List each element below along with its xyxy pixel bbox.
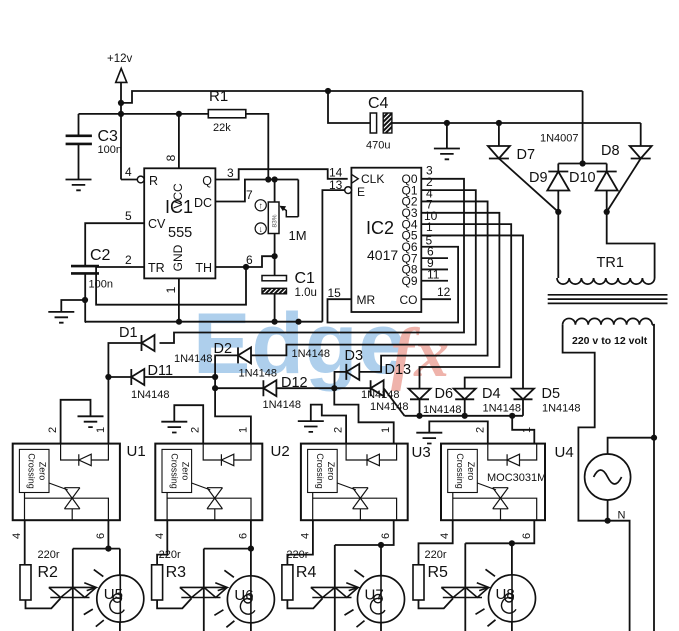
U1 internal bottom wires xyxy=(24,493,26,521)
svg-text:CV: CV xyxy=(148,217,166,231)
wire D9 top stub xyxy=(557,164,559,172)
node U4 pin6 xyxy=(509,540,515,546)
svg-text:GND: GND xyxy=(171,244,185,271)
wire IC1 VCC pin 8 xyxy=(178,114,180,168)
lamp U8 rays xyxy=(476,569,496,626)
svg-text:D5: D5 xyxy=(542,386,561,402)
node DC/R1 junction xyxy=(265,176,271,182)
pot wiper arrow and loop xyxy=(281,207,299,217)
svg-text:Q: Q xyxy=(202,174,212,188)
triac Q4 symbol xyxy=(441,587,488,597)
diode D9 1N4007 xyxy=(547,172,569,191)
svg-text:D1: D1 xyxy=(119,325,138,341)
wire secondary right rail xyxy=(652,325,654,631)
triac Q4 arrow to lamp xyxy=(477,583,489,591)
U2 internal LED xyxy=(221,454,233,466)
svg-text:Zero: Zero xyxy=(180,462,190,481)
wire U2 pin4 to R3 xyxy=(157,520,167,565)
wire U3 pin2 to ground xyxy=(311,405,346,444)
wire C3 top xyxy=(78,114,80,136)
svg-text:TR1: TR1 xyxy=(597,255,624,271)
resistor R5 220r xyxy=(413,565,424,600)
svg-text:1N4148: 1N4148 xyxy=(370,401,409,413)
svg-text:15: 15 xyxy=(328,286,342,300)
triac Q3 symbol xyxy=(311,587,358,597)
U1 internal LED xyxy=(79,454,91,466)
svg-text:1N4148: 1N4148 xyxy=(423,404,462,416)
lamp U7 xyxy=(358,576,405,623)
wire R3 to triac gate xyxy=(157,598,191,608)
node DC/pot junction xyxy=(272,176,278,182)
svg-text:C1: C1 xyxy=(295,270,316,287)
svg-text:U4: U4 xyxy=(555,444,574,461)
node U1 net D11 junction xyxy=(105,374,111,380)
wire D4 to rail xyxy=(464,399,466,416)
wire U2 pin2 to ground xyxy=(174,405,203,443)
svg-text:100n: 100n xyxy=(89,279,113,291)
wire R4 to triac gate xyxy=(287,598,322,608)
svg-text:CLK: CLK xyxy=(361,172,384,186)
svg-text:7: 7 xyxy=(246,188,253,202)
U4 internal LED xyxy=(507,454,519,466)
wire IC1 Q output to IC2 CLK xyxy=(215,169,347,179)
wire lamp1 drop xyxy=(119,549,121,631)
node D9 output xyxy=(555,209,561,215)
node U2 net D11 junction xyxy=(212,374,218,380)
IC2 clock edge marker xyxy=(351,174,358,183)
ground at U2 pin2 xyxy=(161,422,187,433)
wire R5 to triac gate xyxy=(419,598,454,608)
svg-text:U3: U3 xyxy=(412,444,431,461)
svg-text:+12v: +12v xyxy=(107,53,133,65)
svg-text:13: 13 xyxy=(329,178,343,192)
wire triac3 drop xyxy=(334,545,336,631)
diode D10 1N4007 xyxy=(596,172,618,191)
wire C4 right rail xyxy=(392,122,641,124)
svg-text:1: 1 xyxy=(380,427,392,433)
svg-text:R: R xyxy=(149,174,158,188)
wire U3 net to pin1 xyxy=(334,388,393,443)
U3 gate wire xyxy=(337,483,356,490)
svg-text:D6: D6 xyxy=(435,386,454,402)
diode D6 1N4148 xyxy=(409,389,431,400)
wire TR1 primary right lead xyxy=(607,212,655,278)
wire top rail to bridge xyxy=(121,91,583,103)
node rail mid xyxy=(295,319,301,325)
node U3 pin6 xyxy=(378,542,384,548)
node rail D6 xyxy=(416,413,422,419)
stub Q7 pin 6 xyxy=(421,257,448,259)
node C2 ground junction xyxy=(82,297,88,303)
svg-text:D7: D7 xyxy=(517,147,536,163)
U1 internal LED wires xyxy=(61,444,79,460)
svg-text:2: 2 xyxy=(474,427,486,433)
U4 zero crossing block xyxy=(448,449,478,492)
opto-triac U3 body xyxy=(301,444,408,521)
U2 zero crossing block xyxy=(162,449,192,492)
svg-text:470u: 470u xyxy=(366,140,390,152)
svg-text:4: 4 xyxy=(11,533,23,539)
svg-text:1N4148: 1N4148 xyxy=(174,353,213,365)
svg-text:↓: ↓ xyxy=(259,224,263,234)
svg-text:1.0u: 1.0u xyxy=(295,287,317,299)
svg-text:R3: R3 xyxy=(166,564,187,581)
resistor R3 220r xyxy=(152,565,163,600)
svg-text:220r: 220r xyxy=(159,549,181,561)
transformer TR1 core xyxy=(548,295,668,304)
wire Q2 bus xyxy=(359,201,488,371)
svg-text:1N4148: 1N4148 xyxy=(131,389,170,401)
capacitor C2 xyxy=(71,266,99,273)
triac Q1 arrow to lamp xyxy=(84,583,96,591)
wire U4 net rail xyxy=(405,415,524,417)
diode D4 1N4148 xyxy=(454,389,476,400)
svg-text:555: 555 xyxy=(168,225,192,241)
stub CO pin 12 xyxy=(421,298,451,300)
node rail IC1 GND xyxy=(176,319,182,325)
svg-text:1N4148: 1N4148 xyxy=(483,403,522,415)
wire U4 pin4 to R5 xyxy=(419,520,453,565)
wire MR loop from Q6 xyxy=(328,247,459,323)
IC2 enable bubble xyxy=(345,187,352,194)
svg-text:220r: 220r xyxy=(286,549,308,561)
svg-text:6: 6 xyxy=(380,533,392,539)
wire wiper loop vertical xyxy=(297,180,299,217)
svg-text:E: E xyxy=(357,185,365,199)
wire TR pin2 loop to TH xyxy=(96,267,246,305)
svg-text:R1: R1 xyxy=(209,88,228,105)
svg-text:83%: 83% xyxy=(272,214,279,227)
wire D13 cathode xyxy=(334,387,370,389)
wire to ground under C4 rail xyxy=(446,123,448,149)
wire D2 cathode to U2 net xyxy=(215,355,251,443)
resistor R4 220r xyxy=(282,565,293,600)
ground at U4 pin2 xyxy=(416,433,442,444)
capacitor C1 1.0u polarized xyxy=(262,276,287,281)
node TR/TH junction xyxy=(243,264,249,270)
wire C1 bottom to ground rail xyxy=(274,294,276,322)
svg-text:4: 4 xyxy=(154,533,166,539)
U4 gate wire xyxy=(477,483,496,490)
svg-text:MOC3031M: MOC3031M xyxy=(487,472,546,484)
svg-text:1: 1 xyxy=(95,427,107,433)
triac Q2 arrow to lamp xyxy=(215,583,227,591)
wire U1 pin6 net xyxy=(107,520,109,548)
svg-text:12: 12 xyxy=(437,285,451,299)
wire neutral down xyxy=(608,521,630,631)
power +12v supply symbol xyxy=(116,68,127,82)
wire C4 left xyxy=(328,91,370,123)
opto-triac U1 body xyxy=(13,444,120,521)
U3 zero crossing block xyxy=(308,449,338,492)
triac Q2 symbol xyxy=(180,587,227,597)
stub Q8 pin 9 xyxy=(421,268,448,270)
ground below C2 xyxy=(48,312,74,323)
diode D7 1N4007 xyxy=(488,146,510,159)
wire D8 top xyxy=(640,123,642,146)
U4 internal bottom wires xyxy=(452,493,454,521)
diode D2 1N4148 xyxy=(238,347,251,363)
node AC bottom junction xyxy=(605,518,611,524)
wire IC1 R pin to +12v xyxy=(121,179,137,181)
node U2 pin6 xyxy=(248,546,254,552)
svg-text:C2: C2 xyxy=(90,247,111,264)
AC source U-mains xyxy=(585,454,631,500)
svg-text:1M: 1M xyxy=(289,228,307,243)
wire U1 pin2 to ground xyxy=(61,400,91,444)
lamp U8 xyxy=(489,575,536,622)
transformer TR1 secondary winding xyxy=(563,318,653,324)
svg-text:Crossing: Crossing xyxy=(27,453,37,489)
ground at U3 pin2 xyxy=(298,421,324,432)
svg-text:3: 3 xyxy=(227,166,234,180)
wire Q3 bus xyxy=(420,213,500,389)
U2 internal triac xyxy=(207,488,223,509)
svg-text:1N4007: 1N4007 xyxy=(540,133,579,145)
svg-text:Crossing: Crossing xyxy=(455,453,465,489)
svg-text:100n: 100n xyxy=(98,144,122,156)
wire IC1 GND pin 1 xyxy=(178,278,180,321)
node U1 pin6 xyxy=(105,546,111,552)
wire ground rail under IC1 xyxy=(85,321,323,323)
svg-text:Crossing: Crossing xyxy=(315,453,325,489)
triac Q1 symbol xyxy=(49,587,96,597)
wire D12 cathode xyxy=(215,387,263,389)
svg-text:2: 2 xyxy=(125,253,132,267)
resistor R2 220r xyxy=(20,565,31,600)
wire triac1 drop xyxy=(72,549,74,631)
svg-text:220r: 220r xyxy=(38,549,60,561)
lamp U7 filament xyxy=(374,594,382,602)
svg-text:220 v to 12 volt: 220 v to 12 volt xyxy=(572,335,648,347)
U4 internal LED wires xyxy=(488,444,507,460)
transformer TR1 primary winding xyxy=(557,278,655,284)
svg-text:4: 4 xyxy=(299,533,311,539)
svg-text:1: 1 xyxy=(521,427,533,433)
wire TR1 primary left lead xyxy=(557,212,559,278)
wire D11 anode to U2 net xyxy=(144,376,215,378)
lamp U6 filament xyxy=(244,595,252,603)
diode D3 1N4148 xyxy=(346,364,359,380)
wire AC source top xyxy=(608,438,654,454)
wire U1 pin4 to R2 xyxy=(24,520,26,565)
svg-text:Q9: Q9 xyxy=(401,274,417,288)
svg-text:D3: D3 xyxy=(345,348,364,364)
U3 internal bottom wires xyxy=(312,493,314,521)
wire D9 bottom stub xyxy=(557,191,559,212)
wire D3 cathode to U3 net xyxy=(335,372,347,388)
wire Q5 bus xyxy=(421,235,523,388)
lamp U5 rays xyxy=(84,570,104,627)
wire R2 to triac gate xyxy=(26,598,61,608)
svg-text:C3: C3 xyxy=(98,128,119,145)
U3 internal LED xyxy=(367,454,379,466)
svg-text:U2: U2 xyxy=(271,443,290,460)
wire U4 pin6 net xyxy=(512,520,534,631)
svg-text:D13: D13 xyxy=(385,362,412,378)
wire secondary left to AC source bottom xyxy=(563,325,608,521)
U2 gate wire xyxy=(192,483,211,490)
node U3 net junction xyxy=(331,385,337,391)
svg-text:1: 1 xyxy=(237,427,249,433)
lamp U7 rays xyxy=(345,570,365,627)
svg-text:8: 8 xyxy=(164,154,178,161)
svg-text:R5: R5 xyxy=(428,564,449,581)
resistor R1 22k xyxy=(208,110,246,118)
wire CV pin 5 to C2 xyxy=(85,223,144,266)
capacitor C4 470u polarized xyxy=(370,113,376,133)
svg-text:2: 2 xyxy=(47,427,59,433)
wire bridge center from top rail xyxy=(582,91,584,164)
node top rail C4 branch xyxy=(325,88,331,94)
svg-text:CO: CO xyxy=(400,293,418,307)
svg-text:MR: MR xyxy=(357,293,376,307)
svg-text:U1: U1 xyxy=(127,443,146,460)
capacitor C3 xyxy=(66,136,92,144)
svg-text:D9: D9 xyxy=(529,170,548,186)
node +12v junction xyxy=(118,100,124,106)
node U2 net D12 junction xyxy=(212,385,218,391)
triac Q3 arrow to lamp xyxy=(346,583,358,591)
wire U4 rail to pin1 xyxy=(512,416,534,444)
wire D5 to rail xyxy=(522,399,524,416)
wire D6 to rail xyxy=(419,399,421,416)
diode D8 1N4007 xyxy=(630,146,652,159)
lamp U6 rays xyxy=(214,570,234,627)
wire U4 pin2 to ground xyxy=(429,421,488,443)
svg-text:1N4148: 1N4148 xyxy=(542,403,581,415)
pot down marker circle xyxy=(255,223,266,234)
node bridge center xyxy=(580,160,586,166)
svg-text:VCC: VCC xyxy=(171,183,185,209)
wire pot top xyxy=(274,180,276,203)
U1 internal triac xyxy=(64,488,80,509)
svg-text:C4: C4 xyxy=(368,95,389,112)
node C4 rail ground branch xyxy=(444,120,450,126)
diode D5 1N4148 xyxy=(512,389,534,400)
diode D12 1N4148 xyxy=(263,380,276,396)
wire VCC rail xyxy=(79,113,209,115)
svg-text:6: 6 xyxy=(237,533,249,539)
IC1 reset bubble xyxy=(137,176,144,183)
wire C2 bottom xyxy=(84,273,86,322)
svg-text:D8: D8 xyxy=(601,143,620,159)
node VCC rail junction at IC1 pin8 xyxy=(176,111,182,117)
wire pot bottom to TH/C1 xyxy=(274,234,276,276)
U2 internal LED wires xyxy=(203,444,221,460)
svg-text:4: 4 xyxy=(439,533,451,539)
node rail pin1 branch xyxy=(509,413,515,419)
wire D13 anode diagonal to U4 rail xyxy=(384,388,405,416)
svg-text:2: 2 xyxy=(190,427,202,433)
wire D7 top xyxy=(498,123,500,146)
wire Q4 bus xyxy=(421,224,511,388)
svg-text:220r: 220r xyxy=(425,549,447,561)
node VCC rail junction at +12v xyxy=(118,111,124,117)
node rail C1 xyxy=(272,319,278,325)
U1 zero crossing block xyxy=(19,449,49,492)
wire D8 to D10 node diagonal xyxy=(607,159,641,212)
wire C3 bottom xyxy=(78,144,80,180)
ground at U1 pin2 xyxy=(78,416,104,427)
diode D11 1N4148 xyxy=(131,369,144,385)
wire TH pin 6 xyxy=(215,256,274,267)
svg-text:6: 6 xyxy=(521,533,533,539)
wire triac4 drop xyxy=(464,543,466,631)
wire D10 bottom stub xyxy=(606,191,608,212)
lamp U6 xyxy=(227,576,274,623)
wire to left ground xyxy=(61,300,85,312)
svg-text:↑: ↑ xyxy=(259,201,263,211)
pot up marker circle xyxy=(255,200,266,211)
svg-text:22k: 22k xyxy=(213,122,231,134)
opto-triac U2 body xyxy=(155,444,262,521)
potentiometer 1M body xyxy=(268,202,279,234)
svg-text:D4: D4 xyxy=(482,386,501,402)
svg-text:DC: DC xyxy=(194,196,212,210)
wire D11 cathode xyxy=(108,376,131,378)
wire U3 pin4 to R4 xyxy=(287,520,313,565)
wire Q1 bus xyxy=(251,190,476,355)
wire Q0 bus xyxy=(160,179,465,343)
svg-text:N: N xyxy=(618,510,626,522)
opto-triac U4 body xyxy=(441,444,545,521)
svg-text:TH: TH xyxy=(195,261,212,275)
wire triac2 drop xyxy=(203,549,205,631)
diode D13 1N4148 xyxy=(371,380,384,396)
svg-text:R2: R2 xyxy=(38,564,59,581)
wire AC source bottom xyxy=(607,500,609,521)
wire U3 pin6 net xyxy=(381,520,394,631)
wire D1 cathode to U1 net xyxy=(108,343,141,444)
svg-text:6: 6 xyxy=(95,533,107,539)
svg-text:4: 4 xyxy=(125,165,132,179)
wire rail to IC2 E pin xyxy=(322,190,344,322)
op-amp IC2 4017 counter body xyxy=(351,168,421,312)
svg-text:1: 1 xyxy=(164,286,178,293)
node rail D4 xyxy=(462,413,468,419)
stub Q9 pin 11 xyxy=(421,280,448,282)
U3 internal triac xyxy=(353,488,369,509)
lamp U5 filament xyxy=(113,594,121,602)
wire D10 top stub xyxy=(606,164,608,172)
svg-text:Crossing: Crossing xyxy=(169,453,179,489)
node pot bottom junction xyxy=(272,253,278,259)
node right rail AC top xyxy=(651,435,657,441)
svg-text:Zero: Zero xyxy=(326,462,336,481)
U3 internal LED wires xyxy=(346,444,367,460)
svg-text:5: 5 xyxy=(125,209,132,223)
wire IC1 DC discharge node xyxy=(215,180,298,202)
svg-text:11: 11 xyxy=(427,267,440,281)
svg-text:TR: TR xyxy=(148,261,165,275)
node D10 output xyxy=(604,209,610,215)
svg-text:R4: R4 xyxy=(296,564,317,581)
wire R1 right to DC node xyxy=(246,114,268,180)
U1 gate wire xyxy=(49,483,68,490)
svg-text:1N4148: 1N4148 xyxy=(292,348,331,360)
svg-text:Zero: Zero xyxy=(38,462,48,481)
svg-text:4017: 4017 xyxy=(367,247,398,263)
svg-text:1N4148: 1N4148 xyxy=(239,368,278,380)
wire D12 anode to U3 net xyxy=(276,387,334,389)
svg-text:1: 1 xyxy=(426,220,433,234)
lamp U5 xyxy=(97,575,144,622)
wire D7 to D9 node diagonal xyxy=(499,159,558,212)
U2 internal bottom wires xyxy=(166,493,168,521)
svg-text:IC2: IC2 xyxy=(366,218,394,238)
op-amp IC1 555 timer body xyxy=(144,168,215,278)
